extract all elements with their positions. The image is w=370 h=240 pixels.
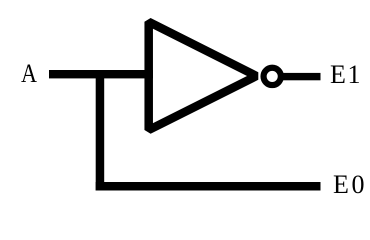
wire input A horizontal bbox=[49, 70, 153, 78]
net label E1 : E bbox=[330, 62, 346, 88]
wire bottom horizontal to E0 bbox=[96, 182, 321, 191]
net label E1 : 1 bbox=[348, 62, 361, 88]
inverter U1 triangle bbox=[149, 22, 257, 130]
inverter U1 inversion bubble bbox=[264, 68, 281, 85]
net label E0 : E bbox=[333, 172, 349, 198]
node label A bbox=[21, 61, 37, 87]
wire output E1 bbox=[283, 73, 321, 80]
net label E0 : 0 bbox=[352, 172, 365, 198]
wire branch vertical from node to E0 wire bbox=[96, 70, 105, 191]
